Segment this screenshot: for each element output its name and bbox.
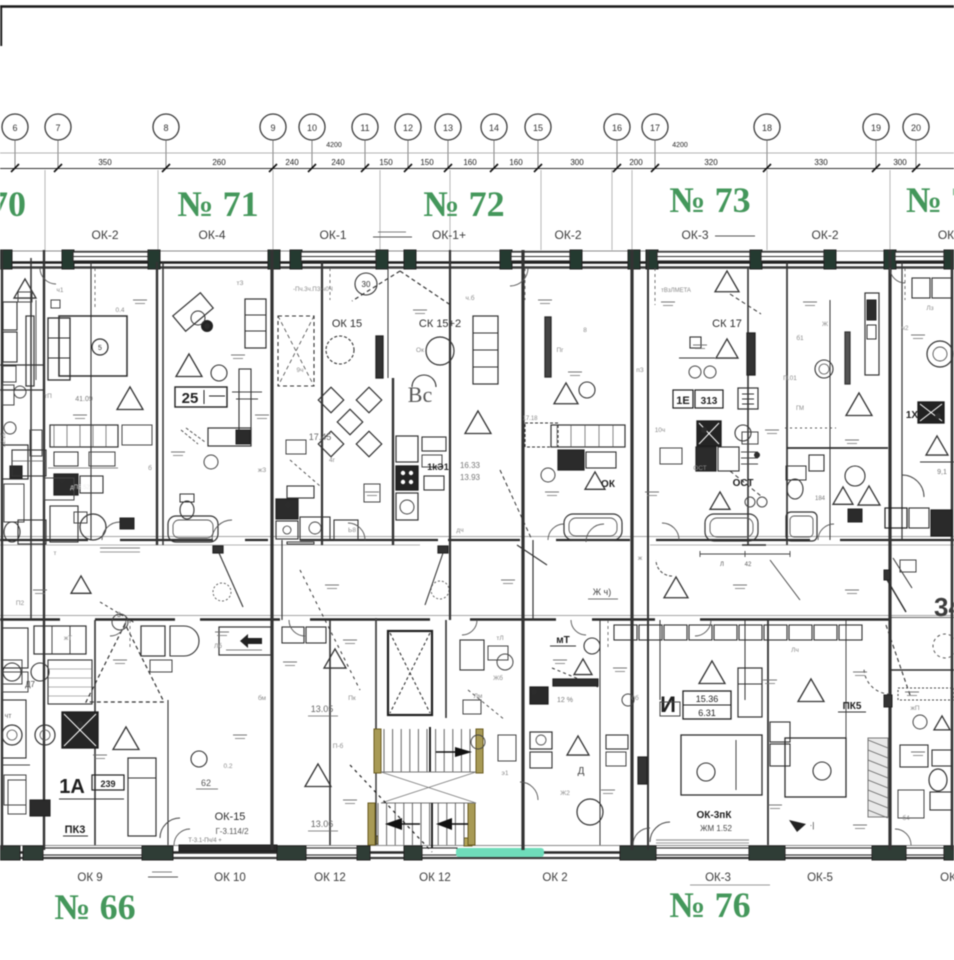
svg-text:П2: П2 [16,600,25,607]
svg-text:260: 260 [212,158,226,167]
svg-text:ОК-2: ОК-2 [555,228,582,242]
svg-text:1Е: 1Е [676,395,689,407]
svg-text:ОК-5: ОК-5 [807,872,833,884]
svg-text:№ 76: № 76 [669,885,750,925]
svg-text:Д7: Д7 [25,680,35,689]
apartment 72 wardrobe right [460,316,532,540]
svg-text:чт: чт [5,713,13,720]
svg-text:ОСТ: ОСТ [693,465,707,472]
svg-text:25: 25 [182,390,199,407]
apartment 71 kitchen [50,425,118,542]
svg-text:ОК-3: ОК-3 [682,228,709,242]
svg-text:№ 72: № 72 [423,184,504,224]
apartment 73 right kitchen [696,421,767,541]
door swing arcs [40,268,911,845]
svg-text:№ 70: № 70 [0,184,26,224]
apartment 66 kitchen and laundry [2,626,98,816]
svg-text:11: 11 [360,123,369,133]
svg-text:9ч: 9ч [296,367,303,374]
room 13.05 13.06 [282,627,346,831]
svg-text:ч.б: ч.б [466,294,475,302]
svg-text:ч2: ч2 [901,325,908,332]
misc dots and dashed stubs [59,268,941,727]
apartment 77 rooms [770,668,890,832]
svg-text:42: 42 [745,562,752,568]
svg-text:16: 16 [612,123,622,133]
svg-text:№ 7: № 7 [906,180,954,220]
canopy gold post [464,838,472,846]
svg-text:Д: Д [578,766,585,777]
svg-text:э1: э1 [502,770,509,777]
svg-text:Лч: Лч [791,647,799,654]
svg-text:Ж2: Ж2 [560,790,570,797]
svg-text:1X: 1X [906,410,919,421]
svg-text:ОК-: ОК- [938,228,954,242]
apartment 76 living room [614,625,862,842]
svg-text:Лм: Лм [474,693,483,700]
room right of elevator [460,640,516,761]
svg-text:150: 150 [420,158,434,167]
svg-text:·|: ·| [810,821,815,830]
svg-text:12 %: 12 % [557,697,573,704]
upper left extra fixtures [0,292,152,544]
dimension chain [0,142,954,250]
svg-text:Ж ч): Ж ч) [593,587,612,597]
svg-text:ж: ж [638,555,643,562]
svg-text:8: 8 [163,123,168,133]
svg-text:150: 150 [379,158,393,167]
svg-text:9,1: 9,1 [937,469,947,476]
apartment 76 kitchen side [530,635,647,825]
svg-text:Пк: Пк [348,695,356,702]
svg-text:тВзЛMETA: тВзЛMETA [661,288,691,294]
svg-text:9: 9 [270,123,275,133]
svg-text:ОК 9: ОК 9 [77,872,102,884]
svg-text:5: 5 [98,345,102,352]
svg-text:ОК: ОК [601,479,616,490]
svg-text:СК 15+2: СК 15+2 [419,318,461,330]
svg-text:ОК 10: ОК 10 [214,872,246,884]
svg-text:320: 320 [704,158,718,167]
svg-text:Ок: Ок [416,347,424,354]
svg-text:41.09: 41.09 [75,396,93,403]
entrance canopy teal [456,848,544,857]
svg-text:17.45: 17.45 [309,432,332,442]
svg-text:б: б [148,464,152,472]
grid axis bubbles [2,114,929,168]
svg-text:ОК: ОК [940,872,954,884]
svg-text:ОК-3пК: ОК-3пК [697,810,733,821]
apartment 72 right kitchen column [287,318,461,520]
svg-text:И: И [660,692,676,717]
svg-text:14: 14 [489,123,499,133]
svg-text:300: 300 [893,158,907,167]
svg-text:ОК-4: ОК-4 [199,228,226,242]
svg-text:13.05: 13.05 [311,704,334,714]
svg-text:20: 20 [911,123,921,133]
svg-text:15: 15 [533,123,543,133]
svg-text:ОК 15: ОК 15 [332,318,362,330]
svg-text:бм: бм [258,694,267,702]
svg-text:160: 160 [509,158,523,167]
svg-text:П.01: П.01 [783,375,797,382]
apartment 66 living room [59,614,249,838]
svg-text:34: 34 [934,592,954,622]
svg-text:№ 66: № 66 [54,887,135,927]
window type labels top [92,228,954,242]
svg-text:17.18: 17.18 [522,416,538,422]
svg-text:13.93: 13.93 [460,473,481,482]
svg-text:ОК-2: ОК-2 [92,228,119,242]
misc density [100,432,916,716]
svg-text:62: 62 [201,778,211,788]
svg-text:8: 8 [583,327,587,334]
svg-text:7: 7 [55,123,60,133]
svg-text:№ 71: № 71 [177,184,258,224]
top exterior wall with windows [0,250,954,269]
svg-text:313: 313 [701,396,718,407]
svg-text:6.31: 6.31 [698,708,716,718]
svg-text:ПК5: ПК5 [843,701,862,712]
svg-text:Лз: Лз [926,305,933,312]
svg-text:б1: б1 [796,334,804,342]
apartment 72 left top [278,271,452,386]
svg-text:дч: дч [456,527,463,534]
svg-text:300: 300 [570,158,584,167]
svg-text:ОК 12: ОК 12 [314,872,346,884]
apartment 70 bathroom fixtures [1,279,36,542]
svg-text:Вс: Вс [408,382,433,407]
gold post left [370,836,378,844]
svg-text:12.15: 12.15 [1,432,7,448]
apartment 71 second room and bath [168,293,266,542]
svg-text:ЖМ 1.52: ЖМ 1.52 [700,824,732,833]
svg-text:Лб: Лб [214,642,222,650]
apartment 73 left rooms [522,317,625,542]
svg-text:дП3.52: дП3.52 [70,485,90,491]
svg-text:Г-3.114/2: Г-3.114/2 [215,827,249,836]
svg-text:тЛ: тЛ [496,635,503,642]
apartment 72 dining cluster and kitchen [276,387,382,544]
svg-text:ПК3: ПК3 [65,824,86,836]
svg-text:330: 330 [814,158,828,167]
svg-text:15.36: 15.36 [696,694,719,704]
apartment 74 left rooms [785,293,888,541]
svg-text:тЗ: тЗ [237,280,244,287]
top border line [0,5,954,8]
svg-text:жП: жП [910,705,919,712]
svg-text:16.33: 16.33 [460,461,481,470]
svg-text:30: 30 [362,280,371,289]
svg-text:ОК 2: ОК 2 [542,872,567,884]
svg-text:19: 19 [871,123,881,133]
svg-text:350: 350 [98,158,112,167]
apartment 73 right top [661,271,761,409]
svg-text:пЗ: пЗ [636,367,644,374]
svg-text:0.2: 0.2 [223,763,232,770]
left frame edge stub [0,6,2,46]
svg-text:3: 3 [117,612,121,619]
svg-text:мТ: мТ [556,635,570,646]
svg-text:ОСТ: ОСТ [733,478,754,489]
svg-text:17: 17 [650,123,660,133]
svg-text:4200: 4200 [326,142,342,149]
svg-text:жТ: жТ [64,635,72,642]
svg-text:1kЭ1: 1kЭ1 [427,462,448,472]
window type labels bottom [77,872,954,885]
svg-text:жЗ: жЗ [258,467,266,474]
svg-text:Л: Л [720,562,724,568]
svg-text:6: 6 [12,123,17,133]
apartment 71 bed and table [48,300,143,410]
svg-text:Ж: Ж [822,321,828,328]
svg-text:ОК-1: ОК-1 [320,228,347,242]
svg-text:ч1: ч1 [56,287,63,294]
svg-text:-Пч.3ч.ПЗ-ч0Ч: -Пч.3ч.ПЗ-ч0Ч [293,287,333,293]
svg-text:18: 18 [762,123,772,133]
svg-text:т: т [54,550,57,557]
svg-text:4г: 4г [329,457,336,464]
elevator shaft [376,618,432,730]
svg-text:12: 12 [403,123,413,133]
svg-text:ГМ: ГМ [796,406,804,412]
svg-text:184: 184 [815,496,826,502]
svg-text:239: 239 [100,779,115,789]
svg-text:240: 240 [285,158,299,167]
svg-text:200: 200 [629,158,643,167]
apartment 74 right edge [885,278,954,536]
apartment 77 bathroom right edge [890,670,954,818]
svg-text:ОК-3: ОК-3 [705,872,731,884]
svg-text:ОК 12: ОК 12 [419,872,451,884]
svg-text:тП: тП [44,393,52,400]
svg-text:Жб: Жб [493,674,503,682]
svg-text:№ 73: № 73 [669,180,750,220]
svg-text:1А: 1А [59,776,85,798]
svg-text:ОК-15: ОК-15 [215,811,246,823]
corridor doors and marks [71,545,954,707]
svg-text:160: 160 [463,158,477,167]
svg-text:4200: 4200 [672,142,688,149]
svg-text:10: 10 [307,123,317,133]
svg-text:Ь8: Ь8 [348,527,356,534]
svg-text:Пг: Пг [556,347,564,354]
svg-text:10ч: 10ч [655,427,666,434]
svg-text:СК 17: СК 17 [712,318,742,330]
svg-text:Т-3.1-Пч/4 +: Т-3.1-Пч/4 + [188,838,222,844]
svg-text:ОК-1+: ОК-1+ [432,228,466,242]
apartment 66 top wardrobes [141,626,271,672]
svg-text:ОК-2: ОК-2 [812,228,839,242]
svg-text:240: 240 [331,158,345,167]
staircase [300,570,483,852]
svg-text:б4: б4 [902,814,910,822]
svg-text:13.06: 13.06 [311,819,334,829]
svg-text:0б: 0б [631,694,639,702]
left edge lower fixtures [2,628,30,805]
svg-text:13: 13 [443,123,453,133]
tiny annotation texts [16,280,934,822]
corridor walls [0,537,954,620]
bottom exterior wall with windows [0,838,954,860]
svg-text:0.4: 0.4 [115,307,124,314]
interior vertical walls [2,250,952,850]
svg-text:П-б: П-б [333,742,344,750]
small double-dash marks [33,300,925,829]
